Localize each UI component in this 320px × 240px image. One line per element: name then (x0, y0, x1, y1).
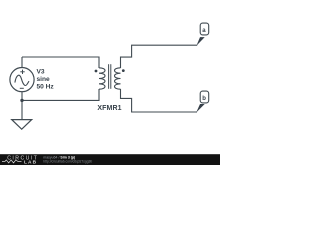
svg-text:XFMR1: XFMR1 (97, 105, 121, 112)
wire top-left rail (22, 57, 99, 68)
terminal flag a (200, 23, 209, 35)
wire ground stem (21, 100, 23, 119)
voltage source V3 (10, 68, 34, 92)
svg-text:LAB: LAB (24, 159, 37, 165)
CircuitLab logo resistor zigzag (2, 160, 22, 163)
wire bottom lead of V3 (21, 92, 23, 101)
footer bar (0, 154, 220, 165)
transformer XFMR1 primary winding (99, 68, 105, 89)
svg-text:sine: sine (37, 76, 51, 83)
transformer XFMR1 secondary winding (115, 68, 121, 89)
svg-text:b: b (202, 96, 206, 102)
flag tail b (196, 104, 205, 113)
transformer core (109, 64, 111, 89)
terminal flag b (200, 91, 209, 103)
svg-text:V3: V3 (37, 69, 45, 76)
flag tail a (196, 37, 204, 46)
svg-text:50 Hz: 50 Hz (37, 84, 55, 91)
ground (12, 120, 32, 130)
wire secondary bottom to flag b (121, 89, 198, 112)
phase dot secondary (122, 69, 125, 72)
phase dot primary (95, 70, 98, 73)
svg-text:http://circuitlab.com/c6q3z7sg: http://circuitlab.com/c6q3z7sgg3b (43, 160, 92, 164)
node junction dot (20, 99, 23, 102)
wire secondary top to flag a (121, 45, 198, 68)
wire bottom-left rail (22, 89, 99, 100)
wire top lead of V3 (21, 57, 23, 68)
